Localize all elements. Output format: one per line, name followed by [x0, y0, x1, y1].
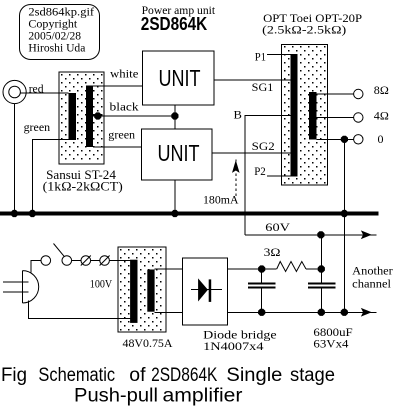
terminal 0 — [354, 135, 363, 144]
switch SW1 — [41, 244, 72, 266]
resistor R1 3Ω — [277, 262, 306, 272]
svg-text:green: green — [24, 120, 50, 134]
svg-text:180mA: 180mA — [203, 193, 239, 207]
svg-text:UNIT: UNIT — [158, 140, 200, 166]
junction cap1 top — [258, 265, 265, 272]
wire 60V rail to resistor junction — [320, 235, 322, 269]
junction 0 tap — [341, 136, 348, 143]
junction 0 line on ground bus — [341, 210, 348, 217]
junction cap2 bottom — [318, 309, 325, 316]
svg-text:SG1: SG1 — [252, 80, 274, 94]
junction between units — [171, 112, 178, 119]
op-amp unit U2 — [142, 129, 213, 180]
svg-text:P1: P1 — [255, 50, 266, 64]
wire green left leg — [32, 140, 68, 212]
wire unit2 to ground bus — [174, 180, 176, 214]
svg-text:2SD864K: 2SD864K — [141, 13, 208, 34]
terminal 8 ohm — [354, 89, 363, 98]
wire white (secondary top to unit1) — [93, 85, 143, 87]
wire jack to transformer primary — [20, 92, 68, 94]
fuse F1 — [81, 256, 91, 266]
svg-text:100V: 100V — [90, 277, 113, 291]
svg-text:8Ω: 8Ω — [374, 83, 389, 97]
svg-text:48V0.75A: 48V0.75A — [123, 336, 173, 350]
svg-text:1N4007x4: 1N4007x4 — [203, 339, 263, 353]
junction on ground bus (green) — [29, 210, 36, 217]
transformer T1 Sansui ST-24 — [59, 72, 104, 164]
capacitor C1 — [248, 269, 276, 312]
svg-text:(2.5kΩ-2.5kΩ): (2.5kΩ-2.5kΩ) — [262, 22, 346, 36]
wire resistor to junction — [306, 268, 321, 270]
svg-text:0: 0 — [378, 132, 384, 146]
svg-text:Another: Another — [352, 264, 393, 278]
wire between units — [174, 105, 176, 129]
wire plug top to switch — [31, 261, 41, 273]
bottom rail wire — [227, 309, 376, 317]
node B wire — [245, 116, 291, 235]
junction resistor right — [318, 265, 325, 272]
input jack J1 — [3, 80, 26, 103]
wire SG2 — [212, 152, 290, 154]
wire black (center tap) — [93, 115, 175, 117]
ground bus (thick) — [0, 212, 379, 216]
junction on ground bus (jack) — [11, 210, 18, 217]
pin P2 wire — [267, 175, 291, 177]
op-amp unit U1 — [143, 51, 215, 105]
junction 0 line bottom — [341, 309, 348, 316]
current arrow 180mA — [233, 160, 239, 197]
svg-text:2sd864kp.gif: 2sd864kp.gif — [28, 7, 94, 19]
wire jack ground drop — [13, 104, 15, 214]
wire plug bottom to power transformer — [29, 301, 131, 319]
wire SG1 — [214, 79, 291, 81]
diode bridge D1 — [182, 258, 227, 325]
svg-text:Hiroshi Uda: Hiroshi Uda — [28, 43, 85, 55]
junction 60V rail — [317, 231, 324, 238]
transformer T3 power — [118, 247, 166, 332]
label: Another channel — [352, 264, 393, 291]
svg-text:green: green — [108, 128, 135, 142]
pin P1 wire — [267, 53, 291, 55]
wire switch to fuse — [72, 260, 81, 262]
svg-text:Copyright: Copyright — [28, 19, 78, 31]
junction unit2 ground — [171, 210, 178, 217]
junction center tap — [94, 112, 101, 119]
svg-text:UNIT: UNIT — [159, 65, 201, 91]
svg-text:60V: 60V — [265, 220, 290, 234]
svg-text:black: black — [110, 100, 139, 114]
junction cap1 bottom — [258, 309, 265, 316]
wire fuse to fuse — [91, 260, 100, 262]
fuse F2 — [100, 256, 110, 266]
wire fuse to power transformer — [109, 260, 130, 262]
svg-text:63Vx4: 63Vx4 — [313, 337, 348, 351]
wire secondary bottom to bridge — [155, 311, 183, 313]
wire 4 ohm tap — [317, 117, 354, 119]
net 60V rail — [245, 231, 377, 239]
svg-text:4Ω: 4Ω — [374, 108, 389, 122]
wire 0 tap — [317, 138, 354, 140]
transformer T2 OPT — [282, 45, 328, 186]
svg-text:(1kΩ-2kΩCT): (1kΩ-2kΩCT) — [43, 179, 123, 194]
wire green (secondary bottom to unit2) — [93, 146, 142, 148]
info box (title block) — [20, 5, 100, 60]
svg-text:2005/02/28: 2005/02/28 — [28, 31, 81, 43]
wire secondary top to bridge — [155, 268, 183, 270]
terminal 4 ohm — [354, 113, 363, 122]
wire bridge to resistor — [227, 268, 276, 270]
wire 0 terminal down to bottom rail — [343, 139, 345, 312]
AC plug P — [3, 271, 39, 303]
svg-text:SG2: SG2 — [252, 139, 275, 153]
wire 8 ohm tap — [317, 93, 354, 95]
svg-text:3Ω: 3Ω — [264, 245, 281, 259]
capacitor C2 — [308, 269, 336, 312]
svg-text:B: B — [234, 108, 242, 122]
svg-text:channel: channel — [352, 277, 391, 291]
svg-text:white: white — [110, 67, 138, 81]
svg-text:P2: P2 — [254, 164, 266, 178]
